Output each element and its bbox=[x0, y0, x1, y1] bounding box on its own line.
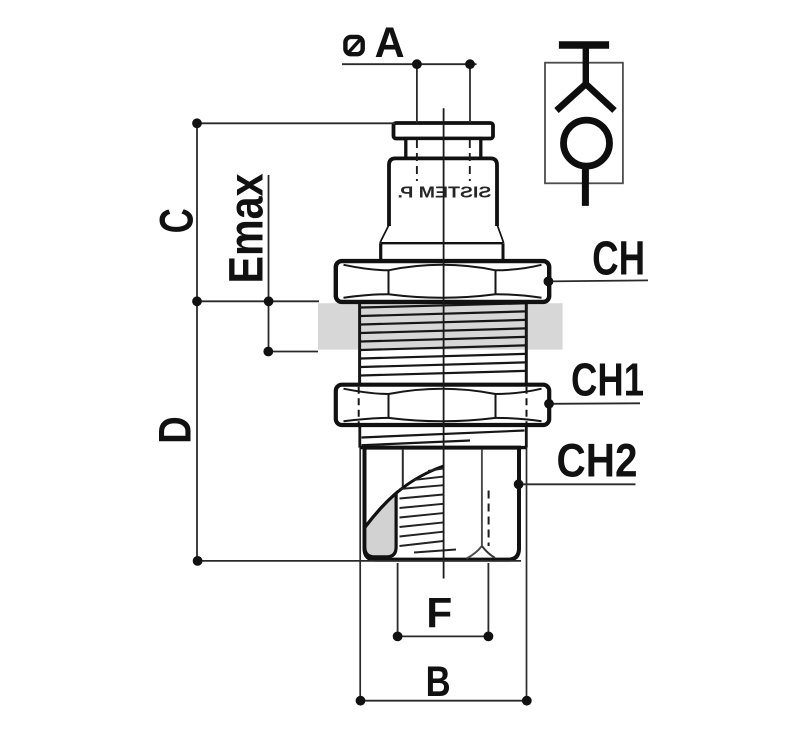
svg-text:Emax: Emax bbox=[221, 173, 274, 283]
male thread upper section bbox=[360, 303, 527, 384]
hex nut CH bbox=[336, 261, 549, 302]
check valve symbol frame bbox=[545, 63, 623, 184]
thread diameter extension lines (B) bbox=[360, 448, 526, 701]
svg-text:F: F bbox=[426, 590, 452, 638]
svg-text:CH: CH bbox=[592, 232, 645, 285]
leader CH bbox=[548, 280, 648, 281]
svg-text:CH1: CH1 bbox=[571, 353, 644, 405]
svg-text:CH2: CH2 bbox=[557, 434, 638, 487]
check valve seat T-bar bbox=[559, 41, 609, 49]
panel (grey bulkhead band) bbox=[318, 303, 563, 349]
check valve seat V bbox=[557, 84, 615, 111]
check valve ball bbox=[564, 120, 610, 166]
facet line right bbox=[467, 450, 482, 559]
check valve stem bottom bbox=[582, 166, 589, 206]
release collar flange bbox=[394, 123, 494, 139]
svg-text:D: D bbox=[150, 416, 201, 444]
lower hex body CH2 bbox=[360, 448, 527, 560]
collar neck bbox=[406, 139, 481, 159]
hidden thread lines through CH1 bbox=[359, 387, 527, 424]
internal thread hatch bbox=[400, 468, 457, 552]
leader CH1 bbox=[549, 402, 640, 405]
facet line left bbox=[402, 450, 404, 488]
hex locknut CH1 bbox=[336, 385, 549, 425]
dimension øA bbox=[342, 64, 477, 123]
svg-text:A: A bbox=[375, 19, 405, 67]
collar base band bbox=[381, 243, 503, 260]
dimension B bbox=[361, 700, 527, 702]
svg-text:C: C bbox=[150, 208, 203, 233]
sectioned material (grey) bbox=[365, 493, 396, 557]
dimension F bbox=[398, 563, 489, 636]
flare cone bbox=[381, 226, 503, 243]
dimension Emax bbox=[268, 175, 318, 352]
label øA bbox=[345, 19, 404, 67]
dimension chain C / D bbox=[197, 123, 521, 561]
centerline bbox=[443, 108, 445, 578]
check valve stem top bbox=[583, 45, 589, 86]
hidden female thread (dashed) bbox=[488, 491, 490, 547]
hidden tube bore lines (dashed) bbox=[417, 140, 470, 181]
cartridge body bbox=[389, 158, 497, 226]
svg-text:B: B bbox=[426, 658, 451, 706]
male thread lower band bbox=[360, 426, 527, 448]
cutaway break arc bbox=[365, 466, 444, 528]
leader CH2 bbox=[519, 483, 636, 485]
